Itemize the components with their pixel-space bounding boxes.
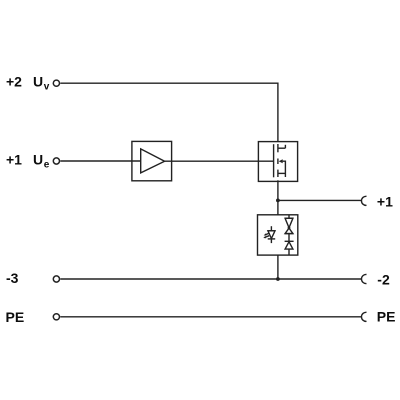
wire protection box to -3 line [277, 255, 279, 279]
wire Ue input to amplifier [60, 160, 140, 162]
terminal +1 Ue (circle) [53, 158, 59, 164]
svg-text:U: U [33, 152, 43, 168]
node output junction [276, 199, 280, 203]
label +1 left [6, 152, 22, 168]
op-amp A1 (amplifier box) [132, 141, 172, 180]
wire +2 Uv supply to MOSFET drain [60, 83, 278, 141]
svg-text:-3: -3 [6, 270, 19, 286]
label Ue [33, 152, 50, 171]
terminal PE right (socket arc) [361, 312, 366, 321]
label -3 [6, 270, 19, 286]
diode D3 [285, 234, 294, 256]
svg-text:+2: +2 [6, 73, 22, 89]
label -2 [377, 272, 390, 288]
node -3 junction [276, 277, 280, 281]
transistor Q1 MOSFET (boxed) [258, 142, 297, 182]
terminal -2 (socket arc) [361, 274, 366, 283]
terminal PE left (circle) [53, 314, 59, 320]
svg-text:U: U [33, 73, 43, 89]
label PE left [6, 309, 25, 325]
svg-text:PE: PE [6, 309, 25, 325]
LED indicator D1 [263, 226, 275, 243]
label PE right [377, 309, 396, 325]
suppressor diode D2 (bidirectional) [285, 215, 294, 234]
terminal +1 (socket arc) [361, 196, 366, 205]
label +2 [6, 73, 22, 89]
svg-text:PE: PE [377, 309, 396, 325]
wire MOSFET source to output node [277, 180, 279, 215]
svg-text:e: e [44, 160, 50, 171]
svg-text:+1: +1 [6, 152, 22, 168]
svg-text:+1: +1 [377, 193, 393, 209]
terminal -3 (circle) [53, 276, 59, 282]
terminal +2 (circle) [53, 80, 59, 86]
svg-text:v: v [44, 81, 50, 92]
wire amplifier output to MOSFET gate [165, 160, 274, 162]
svg-text:-2: -2 [377, 272, 390, 288]
label Uv [33, 73, 50, 92]
wire output node to terminal +1 [278, 199, 362, 201]
wire -3 to -2 [60, 278, 362, 280]
label +1 right [377, 193, 393, 209]
wire PE [60, 316, 362, 318]
protection circuit box [258, 215, 298, 255]
